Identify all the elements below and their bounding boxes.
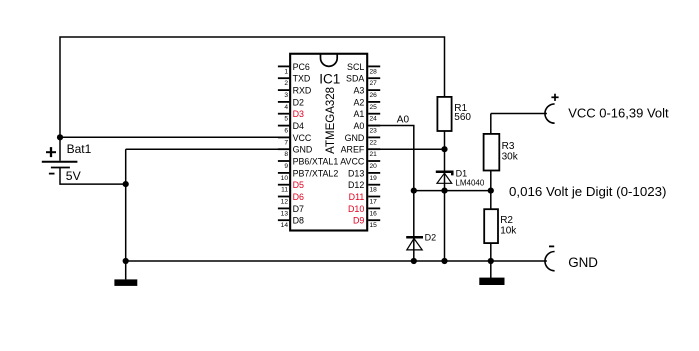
svg-text:25: 25	[370, 104, 378, 111]
svg-text:VCC 0-16,39 Volt: VCC 0-16,39 Volt	[568, 105, 669, 120]
svg-text:D9: D9	[353, 216, 364, 226]
svg-text:1: 1	[284, 68, 288, 75]
svg-text:GND: GND	[345, 133, 365, 143]
svg-text:27: 27	[370, 80, 378, 87]
svg-text:D4: D4	[293, 121, 304, 131]
svg-text:14: 14	[281, 222, 289, 229]
svg-text:17: 17	[370, 198, 378, 205]
svg-text:A1: A1	[353, 109, 364, 119]
svg-text:11: 11	[281, 187, 288, 194]
svg-text:R2: R2	[500, 215, 513, 226]
svg-text:30k: 30k	[502, 152, 519, 163]
svg-text:SDA: SDA	[346, 74, 364, 84]
svg-text:D11: D11	[349, 192, 365, 202]
svg-text:6: 6	[284, 128, 288, 135]
svg-text:18: 18	[370, 187, 378, 194]
svg-text:2: 2	[284, 80, 288, 87]
svg-text:13: 13	[281, 210, 289, 217]
svg-text:28: 28	[370, 68, 378, 75]
svg-text:9: 9	[284, 163, 288, 170]
svg-text:3: 3	[284, 92, 288, 99]
svg-text:560: 560	[454, 112, 471, 123]
svg-text:D5: D5	[293, 180, 304, 190]
svg-text:GND: GND	[293, 145, 313, 155]
svg-text:A0: A0	[353, 121, 364, 131]
svg-text:21: 21	[370, 151, 378, 158]
svg-text:7: 7	[284, 139, 288, 146]
svg-text:16: 16	[370, 210, 378, 217]
svg-text:10k: 10k	[500, 225, 517, 236]
svg-text:20: 20	[370, 163, 378, 170]
svg-text:10: 10	[281, 175, 289, 182]
svg-text:D13: D13	[348, 168, 364, 178]
svg-text:PB6/XTAL1: PB6/XTAL1	[293, 156, 339, 166]
svg-text:TXD: TXD	[293, 74, 311, 84]
svg-text:Bat1: Bat1	[67, 142, 92, 156]
svg-text:VCC: VCC	[293, 133, 312, 143]
svg-text:24: 24	[370, 116, 378, 123]
svg-text:RXD: RXD	[293, 86, 312, 96]
svg-text:D7: D7	[293, 204, 304, 214]
svg-text:IC1: IC1	[319, 71, 340, 86]
svg-text:26: 26	[370, 92, 378, 99]
svg-text:D12: D12	[348, 180, 364, 190]
svg-text:SCL: SCL	[347, 62, 364, 72]
svg-text:15: 15	[370, 222, 378, 229]
svg-text:D6: D6	[293, 192, 304, 202]
svg-text:4: 4	[284, 104, 288, 111]
svg-text:PC6: PC6	[293, 62, 310, 72]
svg-text:D2: D2	[425, 233, 437, 243]
svg-text:22: 22	[370, 139, 378, 146]
svg-text:D2: D2	[293, 97, 304, 107]
svg-text:PB7/XTAL2: PB7/XTAL2	[293, 168, 339, 178]
svg-text:23: 23	[370, 128, 378, 135]
svg-text:A3: A3	[353, 86, 364, 96]
svg-text:5V: 5V	[66, 169, 82, 183]
svg-text:D3: D3	[293, 109, 304, 119]
svg-text:LM4040: LM4040	[455, 179, 484, 188]
svg-text:AVCC: AVCC	[340, 156, 365, 166]
svg-text:AREF: AREF	[341, 145, 365, 155]
svg-text:A0: A0	[397, 115, 410, 126]
svg-text:12: 12	[281, 198, 289, 205]
svg-text:D8: D8	[293, 216, 304, 226]
svg-text:8: 8	[284, 151, 288, 158]
svg-text:19: 19	[370, 175, 378, 182]
svg-text:5: 5	[284, 116, 288, 123]
svg-text:D10: D10	[348, 204, 364, 214]
svg-text:D1: D1	[456, 168, 468, 178]
svg-text:GND: GND	[568, 255, 598, 270]
svg-text:ATMEGA328: ATMEGA328	[325, 87, 337, 154]
svg-text:A2: A2	[353, 97, 364, 107]
svg-text:0,016 Volt je Digit (0-1023): 0,016 Volt je Digit (0-1023)	[509, 184, 666, 199]
